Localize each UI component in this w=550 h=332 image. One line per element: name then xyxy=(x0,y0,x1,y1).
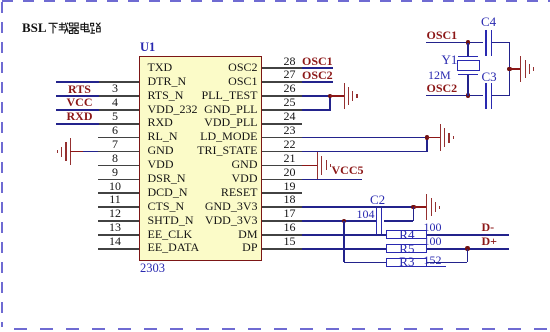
wire pin 27 xyxy=(302,81,333,83)
net label OSC2 (crystal) xyxy=(427,82,458,94)
pin 6 stub xyxy=(98,137,139,139)
resistor R4 xyxy=(386,230,427,239)
capacitor C4 xyxy=(485,30,486,56)
net label OSC2 (pin 27) xyxy=(302,69,333,81)
pin 11 stub xyxy=(98,206,139,208)
net label OSC1 (pin 28) xyxy=(302,55,333,67)
wire ground rail xyxy=(509,43,511,96)
dashed sheet border left xyxy=(1,2,3,327)
wire R5 to D+ xyxy=(427,248,509,250)
junction OSC1 xyxy=(466,40,471,45)
pin 5 stub xyxy=(99,123,139,125)
pin number 5 xyxy=(105,110,125,122)
pin number 8 xyxy=(105,152,125,164)
wire pin 28 xyxy=(302,67,333,69)
U1 right pin stubs 15-28 xyxy=(262,248,302,250)
label C2 xyxy=(370,193,385,206)
wire net to pin 2 xyxy=(56,81,99,83)
right pin numbers xyxy=(278,235,302,247)
wire net RTS xyxy=(56,95,99,97)
designator Y1 xyxy=(442,53,458,66)
ground symbol at crystal xyxy=(510,68,521,70)
wire R3 to D+ node xyxy=(427,262,467,264)
part number 2303 xyxy=(140,262,165,275)
capacitor C2 xyxy=(376,208,377,234)
pin number 4 xyxy=(105,96,125,108)
crystal Y1 xyxy=(467,43,469,57)
pin number 3 xyxy=(105,82,125,94)
wire pin 16 to R4 xyxy=(302,234,386,236)
pin 7 stub xyxy=(98,151,139,153)
value 100 (R4) xyxy=(424,221,442,233)
ground symbol at pin 23 xyxy=(427,137,440,139)
wire pin 17 VDD_3V3 xyxy=(302,220,376,222)
wire C2 to ground node xyxy=(384,220,413,222)
value 12M xyxy=(428,69,451,81)
pin number 14 xyxy=(105,235,125,247)
ground symbol at pin 18 xyxy=(414,206,427,208)
wire pin 22 xyxy=(302,151,428,153)
wire R4 to D- xyxy=(427,234,509,236)
pin 10 stub xyxy=(98,192,139,194)
ground symbol at pin 21 xyxy=(302,165,318,167)
title BSL downloader circuit xyxy=(22,21,47,34)
capacitor C3 xyxy=(485,83,486,109)
wire net RXD xyxy=(56,123,99,125)
resistor R5 xyxy=(386,244,427,253)
junction pin 18 / C2 xyxy=(411,205,416,210)
U1 left pin names xyxy=(148,61,173,73)
pin number 9 xyxy=(105,166,125,178)
net label D- xyxy=(482,221,495,233)
value 100 (R5) xyxy=(424,235,442,247)
U1 right pin names xyxy=(178,61,258,73)
junction pins 25-26 xyxy=(328,94,333,99)
junction ground rail xyxy=(507,67,512,72)
wire OSC2 node xyxy=(426,95,483,97)
ground symbol at pin 7 xyxy=(70,138,71,165)
pin 4 stub xyxy=(99,109,139,111)
pin 8 stub xyxy=(98,165,139,167)
net label VCC xyxy=(60,96,100,108)
label C3 xyxy=(482,70,497,83)
pin 14 stub xyxy=(98,248,139,250)
wire pin 20 VCC5 xyxy=(302,179,362,181)
pin number 7 xyxy=(105,138,125,150)
pin 13 stub xyxy=(98,234,139,236)
wire pin 15 to R5 xyxy=(302,248,386,250)
wire pin 25 xyxy=(302,109,331,111)
pin 3 stub xyxy=(99,95,139,97)
net label VCC5 xyxy=(332,164,364,176)
wire net VCC xyxy=(56,109,99,111)
pin number 12 xyxy=(105,207,125,219)
pin number 13 xyxy=(105,221,125,233)
wire C3 to ground rail xyxy=(492,95,510,97)
junction pins 22-23 xyxy=(425,135,430,140)
dashed sheet border bottom xyxy=(14,328,550,330)
resistor R3 xyxy=(386,258,427,267)
pin 9 stub xyxy=(98,179,139,181)
junction D+ / R3 xyxy=(465,246,470,251)
wire OSC1 node xyxy=(426,42,483,44)
net label OSC1 (crystal) xyxy=(427,29,458,41)
wire pin 18 xyxy=(302,206,414,208)
pin number 11 xyxy=(105,193,125,205)
pin 12 stub xyxy=(98,220,139,222)
value 152 (R3) xyxy=(424,254,442,266)
dashed sheet border top xyxy=(2,0,550,2)
net label D+ xyxy=(482,235,498,247)
net label RXD xyxy=(60,110,100,122)
wire C4 to ground rail xyxy=(492,42,510,44)
pin number 10 xyxy=(105,180,125,192)
wire pin 23 xyxy=(302,137,427,139)
wire R3 pull-up vertical xyxy=(343,221,345,262)
pin number 6 xyxy=(105,124,125,136)
wire VCC5 power stem xyxy=(317,152,319,180)
junction pin 17 / R3 pull-up xyxy=(342,219,347,224)
op IC U1 PL2303 body xyxy=(139,56,263,261)
ground symbol at pin 26 xyxy=(330,95,344,97)
designator U1 xyxy=(140,41,155,54)
label C4 xyxy=(481,15,496,28)
wire pin 26 xyxy=(302,95,330,97)
net label RTS xyxy=(60,83,100,95)
junction OSC2 xyxy=(466,93,471,98)
value 104 xyxy=(357,208,375,220)
